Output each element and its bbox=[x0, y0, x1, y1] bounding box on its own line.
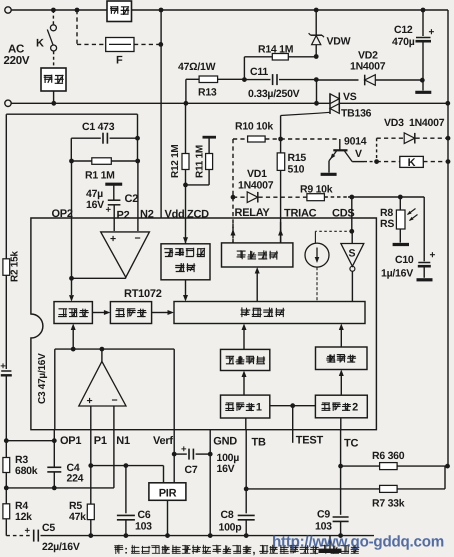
svg-text:RT1072: RT1072 bbox=[124, 288, 162, 300]
svg-text:Verf: Verf bbox=[153, 435, 173, 447]
svg-text:100p: 100p bbox=[219, 522, 242, 534]
svg-text:C5: C5 bbox=[42, 522, 55, 534]
svg-text:C1 473: C1 473 bbox=[82, 121, 115, 133]
svg-text:VS: VS bbox=[343, 91, 357, 103]
svg-text:103: 103 bbox=[135, 521, 152, 533]
svg-text:R7 33k: R7 33k bbox=[372, 498, 405, 510]
svg-text:1µ/16V: 1µ/16V bbox=[381, 268, 413, 280]
svg-text:C11: C11 bbox=[250, 66, 268, 78]
svg-text:RS: RS bbox=[380, 218, 394, 230]
svg-text:K: K bbox=[408, 157, 416, 169]
svg-text:PIR: PIR bbox=[159, 488, 177, 500]
svg-text:TC: TC bbox=[344, 438, 358, 450]
svg-text:16V: 16V bbox=[86, 199, 104, 211]
svg-text:9014: 9014 bbox=[344, 136, 367, 148]
svg-text:R10 10k: R10 10k bbox=[235, 121, 273, 133]
svg-text:680k: 680k bbox=[15, 465, 38, 477]
svg-text:R12 1M: R12 1M bbox=[170, 144, 181, 178]
svg-text:47Ω/1W: 47Ω/1W bbox=[178, 61, 216, 73]
svg-text:−: − bbox=[135, 233, 141, 245]
svg-text:TB: TB bbox=[252, 437, 266, 449]
svg-text:12k: 12k bbox=[15, 511, 32, 523]
svg-text:1N4007: 1N4007 bbox=[238, 180, 274, 192]
svg-text:http://www.go-gddq.com: http://www.go-gddq.com bbox=[272, 534, 444, 551]
svg-text:,: , bbox=[252, 544, 255, 556]
svg-text:−: − bbox=[112, 395, 118, 407]
svg-text:16V: 16V bbox=[217, 463, 235, 475]
svg-text:VDW: VDW bbox=[327, 36, 351, 48]
svg-text:C7: C7 bbox=[185, 464, 198, 476]
svg-text:470µ: 470µ bbox=[392, 36, 415, 48]
svg-text:C9: C9 bbox=[317, 509, 330, 521]
svg-text:C8: C8 bbox=[221, 509, 234, 521]
svg-text:GND: GND bbox=[213, 436, 237, 448]
svg-text:R15: R15 bbox=[288, 152, 307, 164]
svg-text:+: + bbox=[87, 395, 93, 407]
svg-text:OP1: OP1 bbox=[60, 435, 81, 447]
svg-text:R1 1M: R1 1M bbox=[85, 170, 115, 182]
svg-text:+: + bbox=[430, 250, 436, 261]
svg-text:AC: AC bbox=[8, 44, 24, 56]
svg-text:47k: 47k bbox=[69, 511, 86, 523]
svg-text:R2 15k: R2 15k bbox=[10, 251, 21, 282]
svg-text:22µ/16V: 22µ/16V bbox=[42, 541, 80, 553]
svg-text:+: + bbox=[181, 444, 187, 455]
svg-text::: : bbox=[124, 544, 128, 556]
svg-text:F: F bbox=[116, 55, 123, 67]
svg-text:1N4007: 1N4007 bbox=[350, 61, 386, 73]
svg-text:510: 510 bbox=[288, 164, 305, 176]
svg-text:2: 2 bbox=[352, 401, 358, 413]
svg-text:0.33µ/250V: 0.33µ/250V bbox=[248, 88, 300, 100]
svg-text:+: + bbox=[25, 526, 31, 537]
svg-text:P1: P1 bbox=[94, 435, 107, 447]
svg-text:1N4007: 1N4007 bbox=[409, 117, 445, 129]
svg-text:C6: C6 bbox=[138, 509, 151, 521]
svg-text:TB136: TB136 bbox=[341, 108, 372, 120]
svg-text:+: + bbox=[110, 233, 116, 245]
svg-text:R14 1M: R14 1M bbox=[258, 44, 294, 56]
svg-text:S: S bbox=[349, 248, 356, 260]
svg-text:+: + bbox=[429, 27, 435, 38]
svg-text:103: 103 bbox=[315, 521, 332, 533]
svg-text:C3 47µ/16V: C3 47µ/16V bbox=[37, 353, 48, 404]
svg-text:TEST: TEST bbox=[296, 435, 324, 447]
svg-text:C2: C2 bbox=[125, 193, 139, 205]
svg-text:R6 360: R6 360 bbox=[372, 450, 405, 462]
svg-text:R11 1M: R11 1M bbox=[195, 145, 206, 178]
svg-text:224: 224 bbox=[67, 473, 84, 485]
svg-text:R13: R13 bbox=[198, 87, 217, 99]
svg-text:P2: P2 bbox=[117, 210, 130, 222]
svg-text:+: + bbox=[106, 205, 112, 216]
svg-text:RELAY: RELAY bbox=[235, 207, 271, 219]
svg-text:V: V bbox=[355, 148, 362, 160]
svg-text:220V: 220V bbox=[4, 55, 30, 67]
svg-text:VD3: VD3 bbox=[384, 117, 404, 129]
svg-text:1: 1 bbox=[256, 401, 262, 413]
svg-text:C10: C10 bbox=[395, 254, 414, 266]
svg-text:C12: C12 bbox=[394, 24, 413, 36]
svg-text:R9 10k: R9 10k bbox=[300, 184, 333, 196]
svg-text:N1: N1 bbox=[116, 435, 130, 447]
svg-text:VD1: VD1 bbox=[247, 168, 267, 180]
svg-text:K: K bbox=[36, 38, 44, 50]
